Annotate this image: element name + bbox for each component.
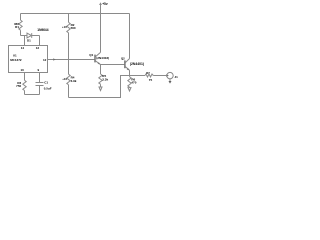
wire Q2 emitter down to node (129, 70, 131, 75)
svg-text:3.3k: 3.3k (102, 78, 108, 82)
transistor Q2 (125, 59, 130, 71)
svg-text:Q1: Q1 (89, 53, 93, 57)
svg-text:13: 13 (36, 46, 40, 50)
wire feedback to bottom left (69, 76, 130, 98)
ground arrow below R6 (128, 88, 131, 91)
svg-text:750: 750 (16, 84, 21, 88)
diode D1 (27, 33, 40, 38)
svg-text:J1: J1 (175, 75, 179, 79)
wire pin 13 stub (39, 36, 41, 46)
wire pin 14 stub (24, 36, 26, 46)
svg-text:D1: D1 (27, 39, 31, 43)
wire anode segment (21, 35, 28, 37)
power +5v symbol (99, 2, 102, 13)
svg-text:0.5uF: 0.5uF (44, 86, 52, 90)
resistor R1 (19, 20, 22, 30)
resistor R6 (129, 76, 131, 77)
ground stub below J1 (169, 79, 171, 81)
wire output node to R7 (130, 75, 146, 77)
svg-text:(2N4401): (2N4401) (130, 62, 144, 66)
wire Q1 emitter node down (100, 65, 102, 75)
wire left branch down from rail (20, 14, 22, 21)
resistor R4 (68, 60, 70, 75)
resistor R2 (67, 22, 70, 33)
svg-text:14: 14 (21, 46, 25, 50)
svg-text:+10: +10 (62, 25, 67, 29)
svg-text:+10: +10 (62, 77, 67, 81)
transistor Q1 (95, 52, 101, 64)
wire Q1 collector to +5V rail (100, 14, 102, 53)
svg-text:75: 75 (149, 78, 153, 82)
svg-text:3.9k: 3.9k (71, 79, 77, 83)
svg-text:R1: R1 (15, 25, 19, 29)
svg-text:+5v: +5v (102, 2, 108, 6)
svg-text:C1: C1 (44, 80, 48, 84)
resistor R3 (23, 80, 26, 90)
svg-text:(2N4403): (2N4403) (96, 56, 109, 60)
svg-text:12: 12 (43, 58, 47, 62)
wire Q1 emitter to Q2 base (101, 64, 125, 66)
wire middle column from rail (68, 14, 70, 23)
svg-text:560: 560 (71, 26, 76, 30)
resistor R5 (99, 74, 102, 84)
wire ground tie R3-C1 (25, 94, 40, 96)
wire Q2 collector to rail (129, 14, 131, 59)
svg-text:R7: R7 (146, 71, 150, 75)
svg-text:MC1372: MC1372 (10, 58, 22, 62)
arrowhead signal direction (53, 58, 56, 60)
svg-text:1N9644: 1N9644 (37, 28, 48, 32)
wire pin 9 stub down (39, 73, 41, 83)
resistor R7 (145, 74, 153, 77)
wire top +5V rail (21, 13, 130, 15)
capacitor C1 (36, 83, 44, 95)
svg-text:Q2: Q2 (121, 57, 125, 61)
arrowhead into J1 (166, 74, 169, 77)
svg-text:U1: U1 (13, 54, 17, 58)
svg-text:9: 9 (38, 68, 40, 72)
svg-text:470: 470 (131, 81, 136, 85)
wire pin 10 stub down (24, 73, 26, 81)
ground arrow below R5 (99, 87, 102, 91)
svg-text:10: 10 (20, 68, 24, 72)
wire pin 12 output (48, 59, 95, 61)
connector J1 (167, 72, 173, 78)
wire R7 to J1 (153, 75, 166, 77)
IC U1 MC1372 box (9, 46, 48, 73)
